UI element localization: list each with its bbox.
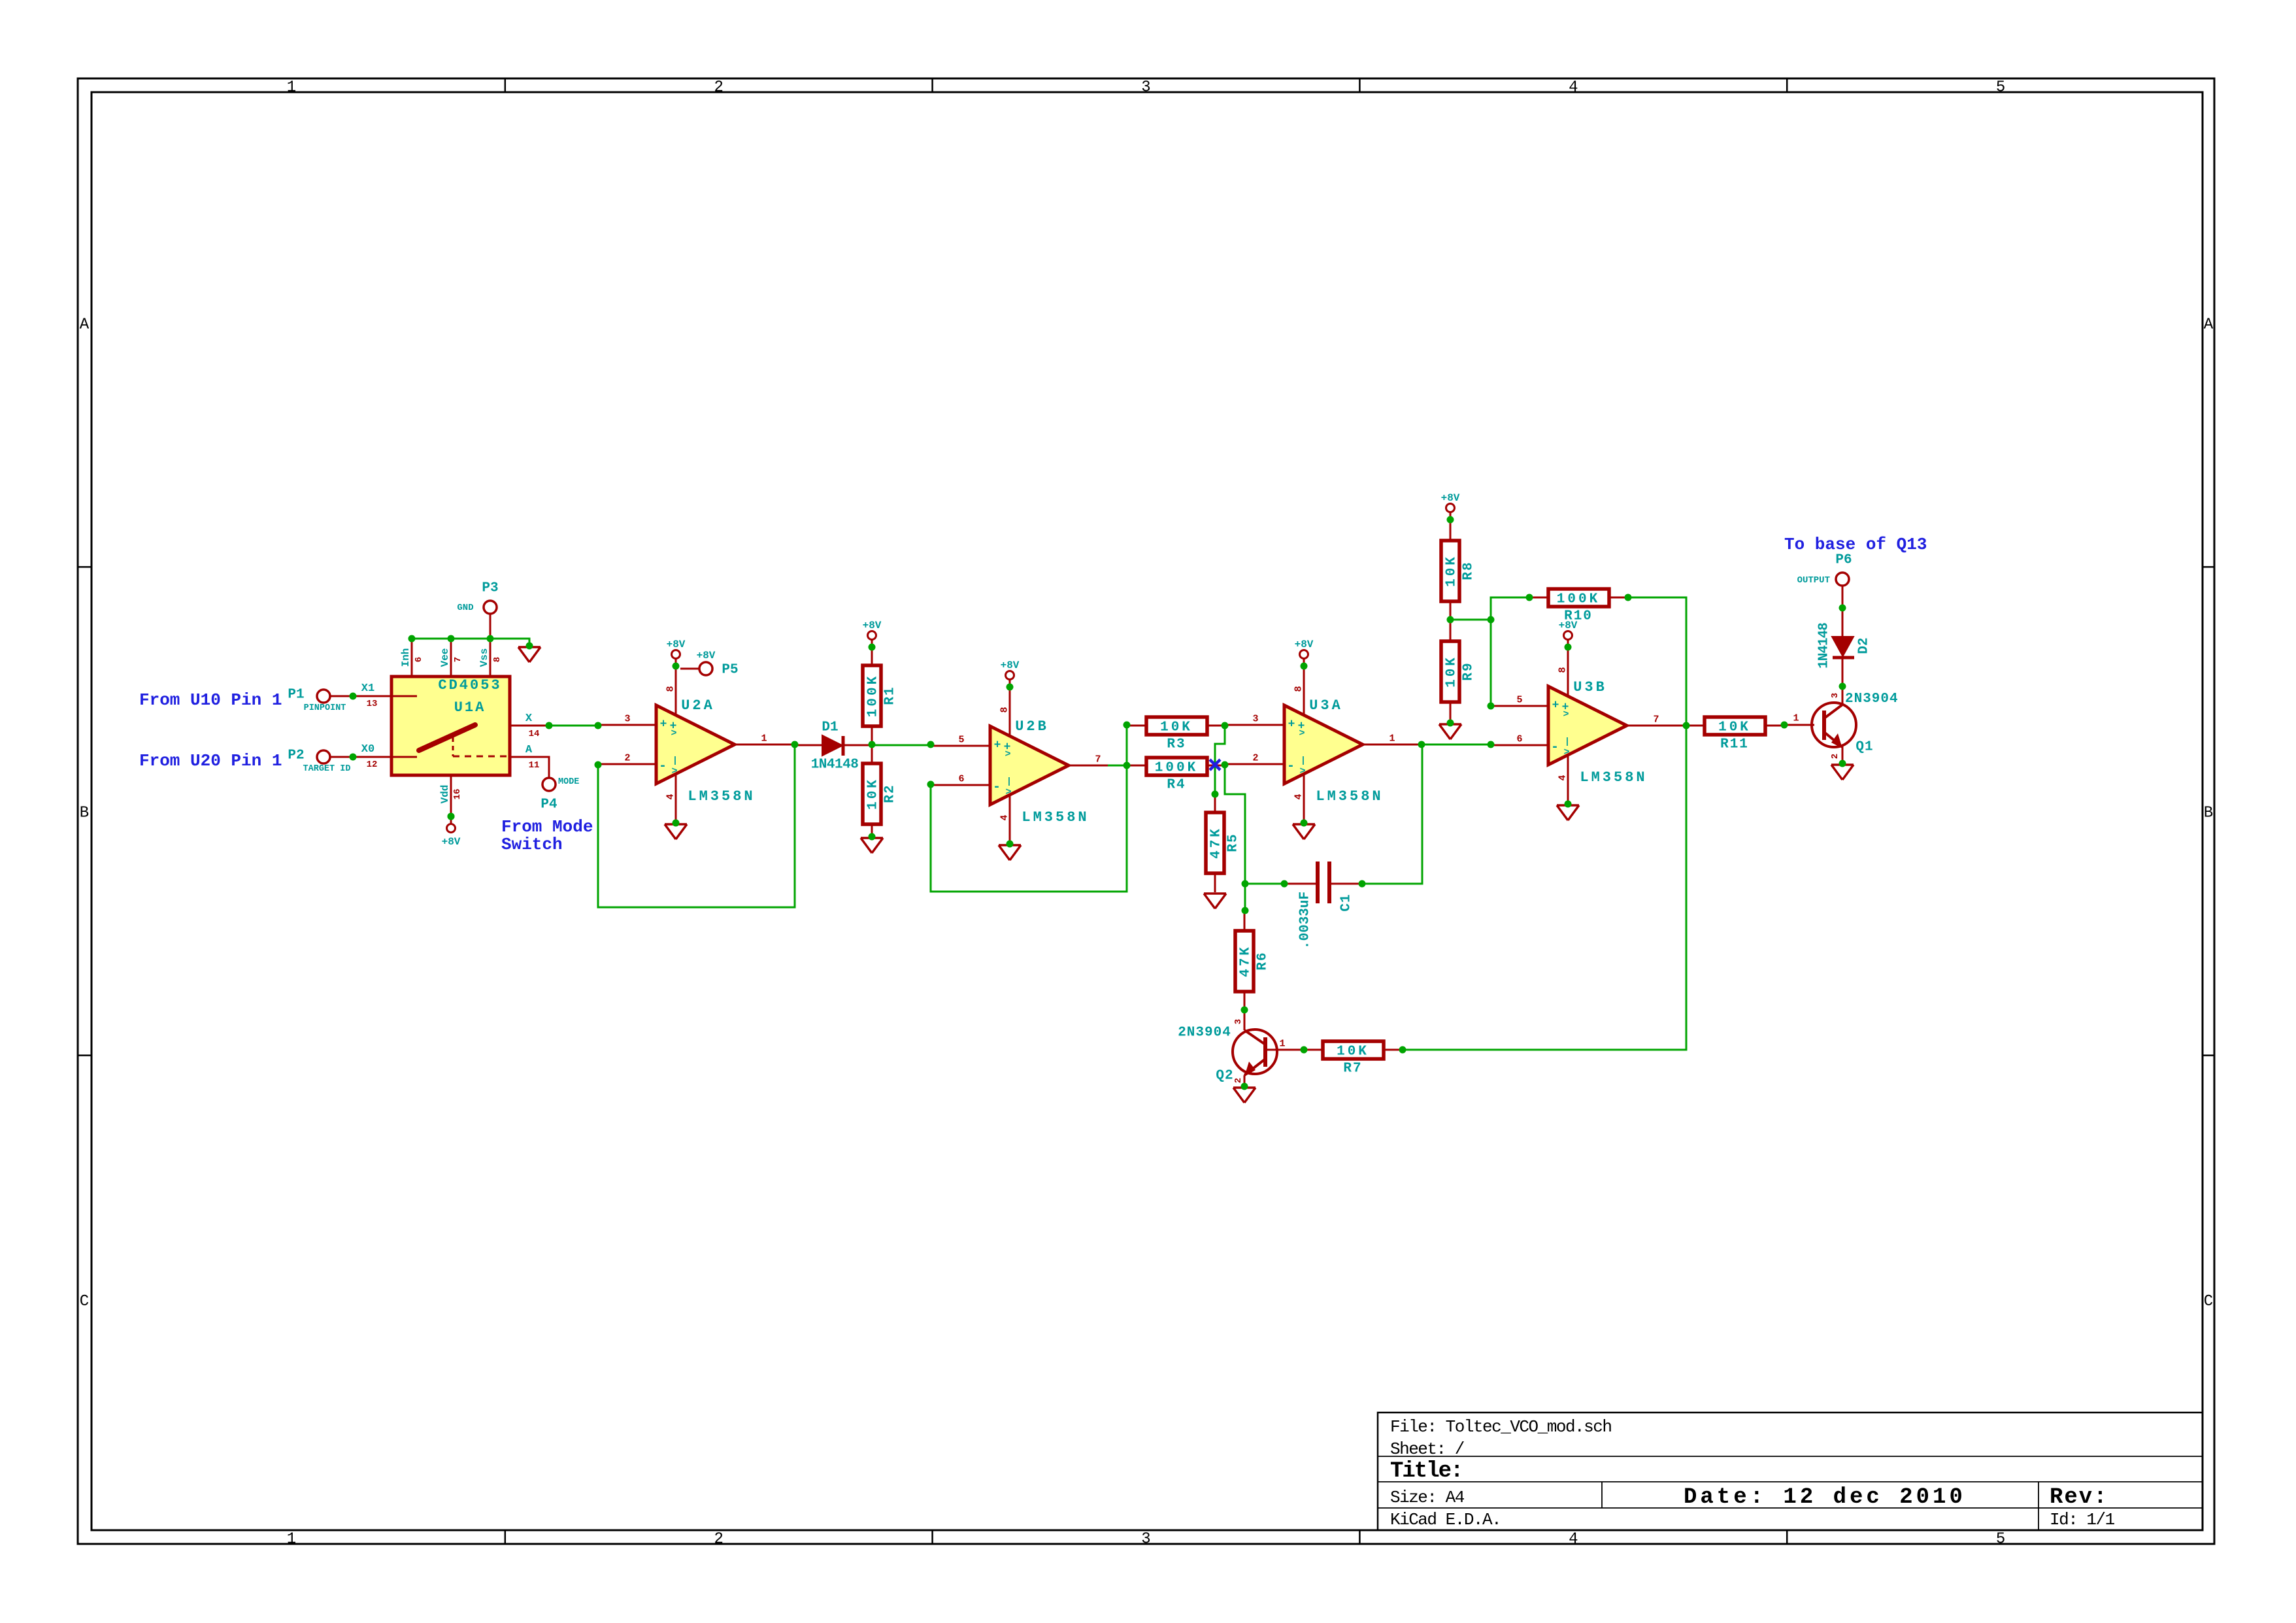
- svg-text:+: +: [1288, 718, 1295, 731]
- svg-text:LM358N: LM358N: [1316, 788, 1383, 805]
- svg-text:P2: P2: [288, 748, 304, 763]
- svg-text:>: >: [1005, 786, 1011, 797]
- svg-text:A: A: [80, 316, 90, 333]
- svg-text:10K: 10K: [1444, 655, 1459, 688]
- svg-text:+8V: +8V: [1441, 492, 1460, 504]
- svg-text:8: 8: [665, 686, 676, 692]
- svg-text:10K: 10K: [1337, 1045, 1369, 1060]
- svg-text:2N3904: 2N3904: [1178, 1026, 1231, 1041]
- svg-text:1N4148: 1N4148: [811, 758, 859, 773]
- svg-text:47K: 47K: [1239, 945, 1254, 977]
- svg-text:4: 4: [1569, 79, 1578, 97]
- svg-text:5: 5: [1996, 1531, 2005, 1548]
- svg-text:4: 4: [1569, 1531, 1578, 1548]
- svg-text:Q2: Q2: [1216, 1069, 1233, 1084]
- svg-text:R2: R2: [883, 784, 898, 803]
- svg-text:+: +: [994, 739, 1001, 752]
- svg-text:11: 11: [529, 760, 540, 771]
- svg-text:3: 3: [624, 713, 630, 724]
- svg-text:2: 2: [714, 1531, 723, 1548]
- svg-text:R8: R8: [1461, 561, 1476, 580]
- svg-text:P5: P5: [722, 663, 738, 678]
- svg-text:+: +: [660, 718, 667, 731]
- svg-text:1: 1: [1389, 733, 1395, 744]
- svg-text:A: A: [2204, 316, 2214, 333]
- svg-text:R6: R6: [1256, 951, 1271, 970]
- svg-text:C: C: [80, 1293, 89, 1311]
- svg-text:>: >: [1299, 765, 1305, 777]
- svg-text:5: 5: [1516, 694, 1522, 705]
- svg-text:10K: 10K: [1718, 720, 1751, 735]
- svg-text:2: 2: [1252, 752, 1258, 763]
- svg-text:12: 12: [367, 760, 378, 770]
- svg-text:From Mode: From Mode: [501, 817, 593, 837]
- svg-text:|: |: [673, 756, 678, 766]
- svg-text:100K: 100K: [866, 674, 881, 717]
- svg-text:4: 4: [1557, 775, 1568, 780]
- svg-text:A: A: [525, 744, 533, 756]
- svg-text:B: B: [80, 805, 89, 822]
- svg-text:14: 14: [529, 729, 540, 739]
- svg-text:Title:: Title:: [1390, 1459, 1462, 1484]
- svg-text:4: 4: [1293, 794, 1304, 799]
- svg-text:1N4148: 1N4148: [1817, 623, 1832, 669]
- svg-text:2N3904: 2N3904: [1845, 692, 1899, 707]
- svg-text:R9: R9: [1461, 661, 1476, 680]
- svg-text:LM358N: LM358N: [1022, 809, 1089, 826]
- svg-text:7: 7: [1095, 754, 1101, 765]
- svg-text:X1: X1: [361, 682, 374, 695]
- svg-text:P1: P1: [288, 688, 304, 703]
- svg-text:OUTPUT: OUTPUT: [1797, 575, 1830, 586]
- svg-text:CD4053: CD4053: [438, 677, 501, 694]
- svg-text:+8V: +8V: [697, 650, 716, 661]
- svg-text:To base of Q13: To base of Q13: [1784, 535, 1927, 554]
- svg-text:R5: R5: [1226, 833, 1241, 852]
- svg-text:From U20 Pin 1: From U20 Pin 1: [139, 751, 282, 771]
- svg-text:2: 2: [1233, 1078, 1244, 1083]
- svg-text:C1: C1: [1339, 894, 1354, 911]
- svg-text:3: 3: [1233, 1019, 1244, 1024]
- svg-text:Rev:: Rev:: [2050, 1485, 2108, 1510]
- svg-text:5: 5: [958, 734, 964, 745]
- svg-text:D2: D2: [1857, 637, 1872, 654]
- svg-text:2: 2: [714, 79, 723, 97]
- svg-text:U3A: U3A: [1309, 697, 1343, 714]
- svg-text:|: |: [1301, 756, 1306, 766]
- svg-text:LM358N: LM358N: [688, 788, 755, 805]
- svg-text:1: 1: [761, 733, 767, 744]
- svg-text:8: 8: [1557, 667, 1568, 673]
- svg-text:1: 1: [1279, 1038, 1285, 1049]
- svg-text:P6: P6: [1835, 553, 1852, 568]
- svg-text:+8V: +8V: [863, 620, 882, 631]
- svg-text:Vdd: Vdd: [439, 785, 451, 804]
- svg-text:100K: 100K: [1155, 761, 1198, 776]
- svg-text:Switch: Switch: [501, 835, 563, 854]
- svg-text:10K: 10K: [1160, 720, 1193, 735]
- svg-text:Vee: Vee: [439, 648, 451, 667]
- svg-text:P3: P3: [482, 581, 498, 596]
- svg-text:C: C: [2204, 1293, 2213, 1311]
- svg-text:X: X: [525, 712, 533, 725]
- svg-text:TARGET ID: TARGET ID: [303, 764, 351, 774]
- svg-text:6: 6: [414, 657, 424, 662]
- svg-text:R10: R10: [1564, 609, 1593, 624]
- svg-text:|: |: [1565, 737, 1570, 747]
- svg-text:+8V: +8V: [1001, 660, 1020, 671]
- svg-text:-: -: [1551, 740, 1559, 755]
- svg-text:U2B: U2B: [1015, 718, 1049, 735]
- svg-text:+: +: [1552, 699, 1559, 712]
- svg-text:+8V: +8V: [1295, 639, 1314, 650]
- svg-text:.0033uF: .0033uF: [1298, 892, 1313, 949]
- svg-text:6: 6: [958, 773, 964, 784]
- svg-text:13: 13: [367, 699, 378, 709]
- svg-text:>: >: [1563, 709, 1569, 720]
- svg-text:R11: R11: [1720, 737, 1749, 752]
- svg-text:8: 8: [1293, 686, 1304, 692]
- svg-text:3: 3: [1141, 1531, 1150, 1548]
- svg-text:|: |: [1007, 777, 1012, 787]
- svg-text:KiCad E.D.A.: KiCad E.D.A.: [1390, 1510, 1501, 1530]
- svg-text:Sheet: /: Sheet: /: [1390, 1439, 1465, 1459]
- svg-text:>: >: [1299, 728, 1305, 739]
- svg-text:Vss: Vss: [478, 648, 490, 667]
- svg-text:-: -: [1287, 759, 1295, 774]
- svg-text:D1: D1: [822, 720, 838, 735]
- svg-text:Q1: Q1: [1855, 740, 1873, 755]
- svg-text:8: 8: [492, 657, 503, 662]
- svg-text:7: 7: [1653, 714, 1659, 725]
- svg-text:>: >: [671, 728, 676, 739]
- svg-text:From U10 Pin 1: From U10 Pin 1: [139, 690, 282, 710]
- svg-text:1: 1: [1793, 712, 1799, 724]
- svg-text:100K: 100K: [1557, 592, 1600, 607]
- svg-text:U1A: U1A: [454, 699, 486, 716]
- svg-text:47K: 47K: [1209, 826, 1224, 859]
- svg-text:MODE: MODE: [558, 777, 579, 787]
- svg-text:>: >: [671, 765, 677, 777]
- svg-text:1: 1: [287, 79, 296, 97]
- svg-text:X0: X0: [361, 743, 374, 756]
- svg-text:3: 3: [1141, 79, 1150, 97]
- svg-text:-: -: [659, 759, 667, 774]
- svg-text:7: 7: [453, 657, 463, 662]
- svg-text:P4: P4: [541, 797, 557, 812]
- svg-text:File: Toltec_VCO_mod.sch: File: Toltec_VCO_mod.sch: [1390, 1417, 1611, 1437]
- svg-text:6: 6: [1516, 733, 1522, 745]
- svg-text:10K: 10K: [1444, 554, 1459, 587]
- svg-text:B: B: [2204, 805, 2213, 822]
- svg-text:2: 2: [624, 752, 630, 763]
- svg-text:4: 4: [999, 814, 1010, 820]
- svg-text:R1: R1: [883, 686, 898, 705]
- svg-text:>: >: [1005, 748, 1010, 760]
- svg-text:4: 4: [665, 794, 676, 799]
- svg-text:Date: 12 dec 2010: Date: 12 dec 2010: [1684, 1485, 1966, 1510]
- svg-text:5: 5: [1996, 79, 2005, 97]
- svg-text:Id: 1/1: Id: 1/1: [2050, 1510, 2115, 1530]
- svg-text:16: 16: [452, 789, 463, 800]
- svg-text:3: 3: [1252, 713, 1258, 724]
- svg-text:R3: R3: [1167, 737, 1186, 752]
- svg-text:+8V: +8V: [667, 639, 686, 650]
- svg-text:R7: R7: [1343, 1062, 1362, 1077]
- svg-text:U3B: U3B: [1573, 679, 1607, 695]
- svg-text:Inh: Inh: [400, 648, 412, 667]
- svg-text:2: 2: [1830, 754, 1840, 759]
- svg-text:PINPOINT: PINPOINT: [304, 703, 346, 713]
- svg-text:10K: 10K: [866, 777, 881, 810]
- svg-text:U2A: U2A: [681, 697, 715, 714]
- svg-text:1: 1: [287, 1531, 296, 1548]
- svg-text:8: 8: [999, 707, 1010, 712]
- svg-text:Size: A4: Size: A4: [1390, 1488, 1465, 1507]
- svg-text:GND: GND: [457, 603, 473, 613]
- svg-text:-: -: [993, 780, 1001, 795]
- svg-text:>: >: [1563, 746, 1569, 758]
- svg-text:3: 3: [1830, 693, 1840, 698]
- svg-text:LM358N: LM358N: [1580, 769, 1647, 786]
- svg-text:+8V: +8V: [442, 836, 461, 848]
- svg-text:R4: R4: [1167, 778, 1186, 793]
